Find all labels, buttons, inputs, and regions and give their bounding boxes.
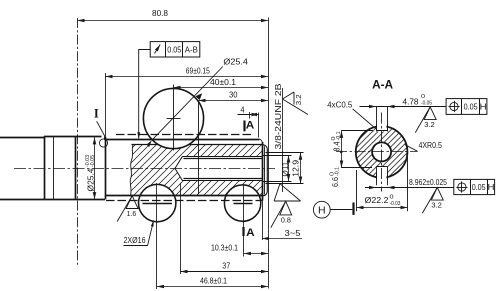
- position frame 2: [454, 179, 495, 194]
- svg-text:69±0.15: 69±0.15: [186, 65, 210, 75]
- dim 4.78 0/-0.05: [360, 106, 447, 108]
- svg-text:Ø25.4: Ø25.4: [86, 168, 96, 191]
- right extension line: [268, 18, 270, 289]
- svg-text:1.6: 1.6: [127, 209, 137, 218]
- svg-text:0: 0: [390, 194, 394, 200]
- dim 10.3±0.1: [244, 253, 268, 255]
- bore cavity mask: [175, 156, 262, 181]
- svg-text:I: I: [94, 107, 99, 121]
- ball right center tick: [234, 203, 253, 205]
- svg-text:-0.1: -0.1: [334, 167, 340, 176]
- svg-text:2XØ16: 2XØ16: [124, 235, 146, 245]
- dim Ø11 (rotated): [262, 155, 292, 157]
- datum H balloon: [313, 201, 330, 218]
- body step at detail I: [104, 136, 106, 140]
- sphere Ø25.4 top: [143, 88, 203, 148]
- end cap inner line: [264, 146, 266, 194]
- body left face: [105, 137, 107, 200]
- runout frame leader: [139, 50, 151, 139]
- section centerline vertical: [381, 113, 383, 192]
- position frame 1: [446, 99, 487, 115]
- ball right centerline vertical: [243, 185, 245, 257]
- svg-text:Ø11: Ø11: [280, 161, 290, 176]
- svg-text:40±0.1: 40±0.1: [210, 77, 236, 87]
- dim 12.9 (rotated): [266, 152, 304, 154]
- svg-text:6.6: 6.6: [331, 177, 340, 187]
- svg-text:-0.05: -0.05: [90, 155, 96, 167]
- ball bottom-left mask: [139, 184, 176, 221]
- svg-text:3.2: 3.2: [431, 201, 442, 210]
- svg-text:30: 30: [229, 90, 238, 100]
- centerline main axis: [14, 168, 275, 170]
- section bore circle: [372, 142, 391, 161]
- label 4XR0.5: [405, 145, 418, 152]
- body bottom outer edge: [105, 195, 264, 197]
- section line A bottom: [242, 227, 244, 236]
- svg-text:80.8: 80.8: [152, 8, 168, 18]
- svg-text:H: H: [480, 101, 487, 111]
- roughness 3.2 under 8.962: [422, 187, 437, 213]
- roughness 0.8 with big triangle: [274, 184, 301, 201]
- dim 46.8±0.1: [157, 286, 268, 288]
- journal right face: [75, 136, 77, 199]
- datum centerline vertical x=77: [77, 18, 79, 266]
- svg-text:0.05: 0.05: [464, 101, 478, 111]
- svg-text:12.9: 12.9: [291, 160, 301, 177]
- body inner line (masked by sphere): [132, 144, 264, 146]
- section line A top: [243, 121, 245, 132]
- hardening dash line bottom: [106, 200, 262, 202]
- svg-text:4XR0.5: 4XR0.5: [418, 140, 442, 150]
- dim 40±0.1: [174, 87, 269, 89]
- top slot: [376, 107, 378, 131]
- sphere centerline vertical: [173, 85, 175, 151]
- sphere mask: [143, 88, 203, 148]
- svg-text:-0.05: -0.05: [421, 100, 432, 106]
- dim 8.4 / 6.6: [341, 130, 373, 132]
- ball bottom-right Ø16: [224, 185, 260, 221]
- svg-text:A: A: [246, 120, 255, 132]
- svg-text:A-A: A-A: [372, 78, 393, 92]
- svg-text:4: 4: [241, 104, 245, 114]
- svg-text:46.8±0.1: 46.8±0.1: [200, 276, 227, 286]
- journal chamfer line: [53, 136, 55, 199]
- svg-text:3/8-24UNF 2B: 3/8-24UNF 2B: [273, 83, 283, 150]
- right face extension down to 3~5 dim: [262, 201, 264, 241]
- thread minor line bottom (thick): [184, 178, 263, 180]
- svg-text:0.05: 0.05: [167, 44, 181, 54]
- svg-text:H: H: [488, 182, 495, 192]
- ball bottom-left Ø16: [139, 184, 176, 221]
- svg-text:8.962±0.025: 8.962±0.025: [409, 177, 447, 187]
- svg-text:0.05: 0.05: [472, 182, 486, 192]
- dim 8.962±0.025: [365, 187, 454, 189]
- roughness 1.6: [117, 196, 132, 222]
- hatched section of body (partial section, wavy break at left): [130, 145, 262, 196]
- svg-text:3.2: 3.2: [294, 94, 303, 105]
- bottom slot: [376, 167, 378, 185]
- body right face: [262, 142, 264, 201]
- section hatch: [356, 124, 408, 189]
- svg-text:4.78: 4.78: [403, 96, 419, 106]
- svg-text:-0.1: -0.1: [336, 132, 342, 141]
- journal left face: [44, 136, 46, 199]
- sphere center tick: [167, 118, 181, 120]
- section centerline horizontal: [336, 151, 417, 153]
- journal top: [44, 136, 102, 138]
- svg-text:8.4: 8.4: [333, 141, 342, 151]
- wire left shaft bottom: [0, 199, 44, 201]
- roughness 3.2 on thread (rotated): [282, 92, 308, 115]
- svg-text:Ø22.2: Ø22.2: [365, 195, 389, 205]
- wire left shaft top: [0, 137, 44, 139]
- svg-text:37: 37: [222, 261, 230, 271]
- svg-text:10.3±0.1: 10.3±0.1: [211, 242, 238, 252]
- ball left center tick: [143, 203, 173, 205]
- dim Ø25.4 journal: [94, 137, 96, 199]
- journal bottom: [44, 199, 105, 201]
- svg-text:A: A: [246, 227, 255, 239]
- runout frame 0.05 A-B: [150, 42, 200, 57]
- svg-text:Ø25.4: Ø25.4: [223, 57, 248, 67]
- svg-text:4xC0.5: 4xC0.5: [327, 99, 352, 109]
- dim 80.8: [77, 20, 268, 22]
- thread major line bottom (thin): [183, 180, 263, 182]
- end cap outline: [263, 145, 267, 196]
- thread major line top (thin): [183, 156, 263, 158]
- thread minor line top (thick): [184, 158, 263, 160]
- ball bottom-right mask: [224, 185, 260, 221]
- wavy break line: [130, 145, 133, 196]
- hardening dash line top: [116, 134, 252, 136]
- svg-text:3~5: 3~5: [285, 228, 301, 238]
- leader Ø25.4 sphere: [152, 67, 223, 141]
- dim 30: [198, 100, 268, 102]
- ball left centerline vertical: [156, 183, 158, 289]
- dim 37: [181, 271, 269, 273]
- svg-text:-0.03: -0.03: [390, 201, 401, 207]
- svg-text:3.2: 3.2: [424, 120, 435, 129]
- thread callout 3/8-24UNF 2B: [282, 88, 284, 192]
- section outer circle: [356, 126, 408, 178]
- detail circle I: [99, 139, 107, 147]
- body top outer edge: [105, 139, 260, 141]
- dim Ø22.2 0/-0.03: [356, 170, 358, 211]
- svg-text:0.8: 0.8: [281, 215, 291, 224]
- svg-text:A-B: A-B: [185, 44, 198, 54]
- svg-text:H: H: [318, 204, 326, 216]
- roughness 3.2 under 4.78: [415, 107, 430, 133]
- thread depth line x=198.4: [198, 101, 200, 194]
- svg-text:0: 0: [421, 94, 425, 100]
- dim 69±0.15: [105, 76, 268, 78]
- drill cone: [175, 156, 183, 181]
